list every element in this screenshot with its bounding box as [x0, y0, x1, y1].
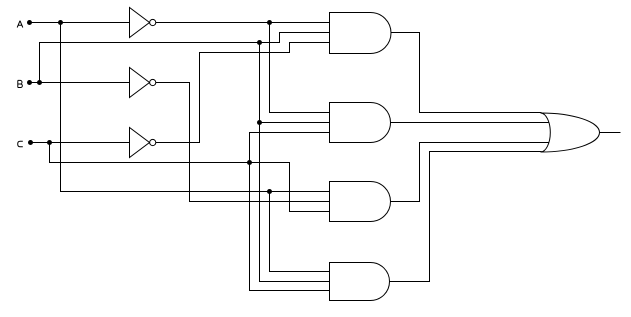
AND gate 1	[330, 13, 392, 54]
wire Abar branch to AND2 in1	[270, 23, 330, 113]
wire output	[600, 132, 621, 134]
node C input terminal	[28, 140, 33, 145]
junction Abar branch	[267, 20, 272, 25]
AND gate 4	[330, 263, 390, 301]
node B input terminal	[27, 80, 32, 85]
wire AND1 output to OR in1	[391, 33, 542, 113]
node A label	[17, 21, 23, 28]
junction A branch to AND4	[267, 189, 272, 194]
AND gate 3	[330, 182, 391, 222]
node B label	[18, 80, 23, 87]
wire B up and over to AND1 in2	[40, 33, 330, 83]
junction A branch	[58, 20, 63, 25]
node C label	[18, 141, 23, 147]
wire A input to inverter U1	[32, 22, 130, 24]
wire Cbar up and over to AND1 in3	[156, 43, 330, 143]
wire A branch to AND4 in1	[270, 192, 330, 272]
wire C input to inverter U3	[33, 142, 130, 144]
wire A branch down to AND3 in1	[61, 23, 330, 192]
junction C branch vertical	[247, 160, 252, 165]
wire Abar to AND1 in1	[156, 22, 330, 24]
AND gate 2	[330, 103, 391, 143]
junction B to AND2	[257, 120, 262, 125]
wire AND4 output to OR in4	[390, 152, 542, 282]
wire C down and right to AND3 in3	[50, 143, 330, 212]
inverter U3 (C)	[130, 128, 156, 158]
wire B branch down to AND4 in2	[260, 43, 330, 282]
wire B to AND2 in2	[260, 122, 330, 124]
wire C branch to AND2 in3 and AND4 in3	[250, 133, 330, 291]
inverter U2 (B)	[130, 68, 156, 98]
wire AND2 output to OR in2	[391, 122, 549, 124]
junction B branch	[37, 80, 42, 85]
inverter U1 (A)	[130, 8, 156, 38]
wire B input to inverter U2	[32, 82, 130, 84]
wire AND3 output to OR in3	[391, 143, 549, 202]
wire Bbar to AND3 in2	[156, 83, 330, 202]
node A input terminal	[27, 20, 32, 25]
OR gate	[541, 113, 600, 152]
junction C branch	[47, 140, 52, 145]
junction B branch down	[257, 40, 262, 45]
